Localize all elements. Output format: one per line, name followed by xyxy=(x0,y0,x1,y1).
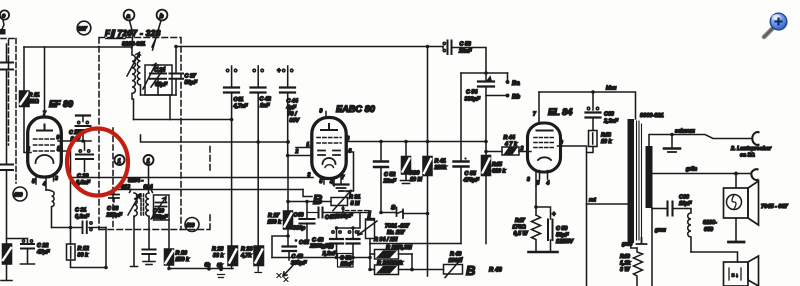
box around C24 xyxy=(145,65,172,95)
resistor R23 xyxy=(228,246,238,269)
svg-text:R 27: R 27 xyxy=(268,213,280,219)
svg-text:C63: C63 xyxy=(604,112,614,118)
wire coil1 bottom down xyxy=(131,217,138,267)
svg-text:× ↓: × ↓ xyxy=(732,273,739,279)
dashed box antenna/IF unit xyxy=(99,38,181,230)
svg-text:33 k: 33 k xyxy=(213,253,224,259)
svg-text:7045 - 007: 7045 - 007 xyxy=(761,204,789,210)
wire box bottom to coil xyxy=(141,94,177,96)
jack 2nd speaker top xyxy=(752,132,758,145)
svg-text:2,2nF: 2,2nF xyxy=(322,251,338,257)
svg-text:7: 7 xyxy=(533,112,536,118)
wire cathode line long xyxy=(71,177,314,179)
wire pin8 detector line xyxy=(346,141,486,143)
wire rot to transformer xyxy=(587,203,629,205)
svg-text:12/15V: 12/15V xyxy=(556,239,573,245)
wire AGC to B xyxy=(303,190,312,197)
svg-text:107: 107 xyxy=(78,27,88,33)
svg-text:R49: R49 xyxy=(620,254,630,260)
svg-text:96 k: 96 k xyxy=(78,253,89,259)
svg-text:FⅡ 7207 - 328: FⅡ 7207 - 328 xyxy=(105,29,161,38)
svg-text:C 24: C 24 xyxy=(154,68,165,74)
wire pin1 stub xyxy=(296,147,312,149)
box around C30 xyxy=(154,195,170,220)
svg-text:C 53: C 53 xyxy=(460,42,471,48)
wire dashed top-left corner xyxy=(1,39,16,146)
svg-text:R 34 / 2M: R 34 / 2M xyxy=(374,237,398,243)
svg-text:Bb: Bb xyxy=(512,95,520,101)
trimmer arrow a xyxy=(127,53,140,77)
wire to bottom speaker xyxy=(691,252,738,262)
svg-text:C 31: C 31 xyxy=(75,208,86,214)
svg-text:4,7nF: 4,7nF xyxy=(233,104,249,110)
magnifier zoom icon xyxy=(764,13,788,37)
resistor R27 xyxy=(272,156,293,258)
svg-text:5: 5 xyxy=(537,181,540,187)
wire gruen tap xyxy=(653,173,752,175)
svg-text:1nF: 1nF xyxy=(260,103,270,109)
resistor R44 xyxy=(484,147,527,155)
capacitor C45 xyxy=(295,239,310,246)
wire AGC line long xyxy=(113,189,303,191)
svg-text:blau: blau xyxy=(606,86,616,92)
svg-text:R 36/220k: R 36/220k xyxy=(377,261,404,267)
capacitor C42 xyxy=(251,66,266,246)
speaker bottom 2nd xyxy=(724,256,759,286)
svg-text:6,2nF: 6,2nF xyxy=(75,214,90,220)
capacitor IF bypass xyxy=(143,250,156,265)
svg-text:C 54: C 54 xyxy=(466,90,477,96)
capacitor C31 xyxy=(83,222,93,234)
svg-text:▴: ▴ xyxy=(487,76,491,82)
svg-text:7: 7 xyxy=(342,175,345,181)
annotation red circle xyxy=(67,129,128,196)
svg-text:EF 89: EF 89 xyxy=(49,99,73,109)
resistor R36 xyxy=(368,265,412,275)
svg-text:9060-021: 9060-021 xyxy=(640,113,664,119)
svg-text:47pF: 47pF xyxy=(36,250,50,256)
svg-text:150 k: 150 k xyxy=(176,257,190,263)
svg-text:220k: 220k xyxy=(434,165,448,171)
svg-text:4 7 k: 4 7 k xyxy=(504,142,518,148)
svg-text:ca 3Ω: ca 3Ω xyxy=(740,153,755,159)
svg-text:10μF: 10μF xyxy=(679,201,692,207)
terminal Ba xyxy=(507,73,509,80)
capacitor C22 xyxy=(7,239,35,265)
node 107 badge xyxy=(77,21,91,35)
svg-text:22nF: 22nF xyxy=(383,179,397,185)
svg-text:4: 4 xyxy=(546,181,550,187)
coil IF core dashes xyxy=(141,194,144,216)
capacitor C52 xyxy=(374,140,388,213)
wire dashed inner vertical xyxy=(112,128,114,229)
capacitor left edge upper xyxy=(0,44,13,163)
svg-text:10Ω: 10Ω xyxy=(29,99,40,105)
capacitor C24 trimmer xyxy=(150,65,166,95)
svg-text:560pF: 560pF xyxy=(153,215,169,221)
svg-text:0,5 W: 0,5 W xyxy=(514,231,529,237)
wire ground row right of R16 xyxy=(169,268,233,270)
wire dashed box bottom xyxy=(99,146,210,230)
svg-text:C 33: C 33 xyxy=(107,206,118,212)
svg-text:R47: R47 xyxy=(515,218,526,224)
capacitor C29 xyxy=(76,141,93,172)
resistor R11 xyxy=(20,47,30,153)
capacitor left edge mid xyxy=(0,165,13,245)
wire R35 R36 join xyxy=(411,254,413,270)
svg-text:C45: C45 xyxy=(299,240,310,246)
svg-text:059: 059 xyxy=(704,227,713,233)
svg-text:B: B xyxy=(466,263,475,278)
wire grid EF89 pin9 xyxy=(61,140,91,142)
svg-text:schwarz: schwarz xyxy=(675,129,695,135)
ground cathode bars xyxy=(529,251,558,254)
svg-text:4μF: 4μF xyxy=(286,105,297,111)
svg-text:65pF: 65pF xyxy=(155,82,168,88)
wire AF line to EABC80 pin2 xyxy=(288,155,312,157)
svg-text:R 26: R 26 xyxy=(241,247,253,253)
transformer 9060-021 xyxy=(628,113,664,244)
wire detector box top xyxy=(461,72,508,74)
svg-text:rot: rot xyxy=(589,198,596,204)
svg-text:R 12: R 12 xyxy=(78,246,89,252)
resistor R47 zigzag xyxy=(532,215,541,252)
resistor R48 xyxy=(587,131,598,153)
coil antenna secondary xyxy=(137,55,140,95)
circled terminal b xyxy=(153,10,168,50)
resistor R49 zigzag xyxy=(634,248,643,286)
svg-text:R 43: R 43 xyxy=(450,252,461,258)
svg-text:C 42: C 42 xyxy=(260,97,271,103)
resistor R45 xyxy=(482,152,491,244)
svg-text:R 41: R 41 xyxy=(435,159,446,165)
node 1 badge left xyxy=(115,155,125,165)
wire B+ bus top xyxy=(176,46,443,48)
coil IF secondary 9204-014 xyxy=(146,193,149,217)
svg-text:2. Lautsprecher: 2. Lautsprecher xyxy=(730,146,772,152)
resistor left edge bottom xyxy=(1,244,12,281)
svg-text:4,7k: 4,7k xyxy=(240,253,252,259)
svg-text:C 29: C 29 xyxy=(77,174,88,180)
capacitor C46 xyxy=(300,202,315,241)
svg-text:3: 3 xyxy=(527,177,530,183)
svg-text:Nr. 187: Nr. 187 xyxy=(387,230,406,236)
capacitor C43 with switch xyxy=(277,247,298,282)
wire AVC line y142 xyxy=(141,135,289,142)
wire C54 down to pin8 line xyxy=(485,96,487,153)
svg-text:+: + xyxy=(277,69,281,75)
svg-text:R 31: R 31 xyxy=(349,195,360,201)
svg-text:b: b xyxy=(160,13,164,20)
capacitor C51 xyxy=(338,254,354,268)
switch S xyxy=(379,205,429,219)
wire audio ground row xyxy=(272,257,370,259)
svg-text:Ba: Ba xyxy=(512,81,520,87)
svg-text:R 35/3,3M: R 35/3,3M xyxy=(386,245,412,251)
svg-text:1: 1 xyxy=(57,146,60,152)
svg-text:C66: C66 xyxy=(679,195,690,201)
ground speaker xyxy=(729,241,745,244)
svg-text:330pF: 330pF xyxy=(465,97,481,103)
capacitor C63 xyxy=(586,92,601,131)
svg-text:10 M: 10 M xyxy=(410,177,422,183)
svg-text:EABC 80: EABC 80 xyxy=(336,104,376,114)
node 460 badge left xyxy=(13,187,27,201)
svg-text:C 49: C 49 xyxy=(322,245,333,251)
svg-text:R48: R48 xyxy=(601,133,611,139)
svg-text:3: 3 xyxy=(308,173,311,179)
svg-text:70 /: 70 / xyxy=(288,112,297,118)
wire box bottom down to screen bus xyxy=(169,95,171,120)
capacitor C44 electrolytic xyxy=(277,66,295,156)
wire pin6 loop xyxy=(339,152,354,191)
capacitor C55 xyxy=(454,73,469,244)
svg-text:330p: 330p xyxy=(293,226,306,232)
wire to R43 xyxy=(412,269,444,271)
svg-text:9: 9 xyxy=(57,135,60,141)
svg-text:460: 460 xyxy=(13,192,23,198)
coil 9238-059 xyxy=(687,209,691,253)
coil IF primary 9204-013 xyxy=(134,193,137,217)
svg-text:9: 9 xyxy=(320,109,323,115)
wire screen bus y120 xyxy=(134,119,232,121)
capacitor C41 xyxy=(224,66,239,246)
node 1 badge right xyxy=(144,155,154,193)
circled terminal a xyxy=(124,10,135,48)
svg-text:C41: C41 xyxy=(234,97,244,103)
svg-text:C 44: C 44 xyxy=(287,99,298,105)
ground secondary xyxy=(664,133,680,152)
svg-text:100Ω: 100Ω xyxy=(449,258,463,264)
svg-text:EL 84: EL 84 xyxy=(548,107,572,117)
svg-text:grün: grün xyxy=(685,167,697,173)
node 460 badge right xyxy=(185,218,199,232)
svg-text:470pF: 470pF xyxy=(463,178,480,184)
svg-text:C 55: C 55 xyxy=(465,171,477,177)
svg-text:5: 5 xyxy=(320,179,323,185)
svg-text:C 59: C 59 xyxy=(556,226,567,232)
svg-text:50μF: 50μF xyxy=(556,233,569,239)
speaker 7045-007 xyxy=(724,172,759,241)
resistor R39 xyxy=(401,140,412,184)
resistor R26 xyxy=(254,246,264,273)
svg-text:2,2nF: 2,2nF xyxy=(603,119,619,125)
wire cathode row xyxy=(52,227,107,229)
capacitor C48 xyxy=(330,228,343,258)
resistor R16 xyxy=(165,249,174,269)
svg-text:B: B xyxy=(313,192,322,207)
svg-text:150 k: 150 k xyxy=(268,220,282,226)
wire schwarz secondary top xyxy=(649,135,752,147)
wire pin3 cathode xyxy=(535,186,537,215)
wire L pot to switch box bottom xyxy=(370,243,461,245)
wire screen pin9 xyxy=(562,146,587,286)
svg-text:5: 5 xyxy=(32,179,35,185)
wire C30 to R16 xyxy=(168,220,170,249)
wire anode B+ blau xyxy=(539,92,636,119)
wire R27 top to R31 xyxy=(288,201,331,203)
capacitor C33 xyxy=(109,190,119,202)
wire grau down xyxy=(651,208,653,286)
capacitor C53 xyxy=(443,41,486,74)
svg-text:10 k: 10 k xyxy=(601,139,612,145)
capacitor C66 xyxy=(652,202,687,216)
svg-text:620 k: 620 k xyxy=(492,169,506,175)
capacitor C49 xyxy=(347,228,360,258)
svg-text:22nF: 22nF xyxy=(458,49,472,55)
resistor R12 xyxy=(67,228,107,268)
svg-text:R 11: R 11 xyxy=(29,93,40,99)
svg-text:S: S xyxy=(391,205,396,212)
svg-text:R 16: R 16 xyxy=(176,251,188,257)
svg-text:9: 9 xyxy=(560,140,563,146)
svg-text:210pF: 210pF xyxy=(106,213,123,219)
svg-text:R 23: R 23 xyxy=(212,247,223,253)
capacitor C28 xyxy=(76,116,91,142)
svg-text:2: 2 xyxy=(26,147,30,153)
svg-text:7801 -187: 7801 -187 xyxy=(385,224,410,230)
tube EF89 xyxy=(28,47,62,190)
svg-text:56pF: 56pF xyxy=(185,80,198,86)
potentiometer R31 xyxy=(331,191,351,213)
node B+ top xyxy=(174,45,178,49)
svg-text:6k: 6k xyxy=(217,263,223,269)
svg-text:C 52: C 52 xyxy=(384,172,395,178)
tube EL84 xyxy=(528,92,563,186)
wire linkage dashed xyxy=(345,210,369,212)
svg-text:2: 2 xyxy=(295,149,299,155)
terminal Bb xyxy=(506,94,510,98)
svg-text:a: a xyxy=(127,13,131,20)
svg-text:1,2k: 1,2k xyxy=(620,261,631,267)
svg-text:R45: R45 xyxy=(492,162,503,168)
potentiometer L tone xyxy=(358,213,377,244)
wire top-left horizontal xyxy=(24,46,132,48)
svg-text:+: + xyxy=(552,212,556,218)
svg-text:R 44: R 44 xyxy=(504,135,515,141)
resistor R35 xyxy=(370,250,412,260)
capacitor C54 xyxy=(478,73,506,96)
svg-text:C46: C46 xyxy=(294,213,305,219)
svg-text:170Ω: 170Ω xyxy=(513,225,527,231)
capacitor C47 xyxy=(307,208,370,218)
capacitor C30 xyxy=(156,203,167,207)
ground EABC80 pin7 xyxy=(334,174,349,191)
wire dashed left vertical xyxy=(15,39,17,184)
potentiometer R43 xyxy=(444,258,463,278)
svg-text:4: 4 xyxy=(42,182,46,188)
svg-text:80V: 80V xyxy=(290,118,300,124)
wire pin1 down xyxy=(61,151,71,228)
svg-text:3: 3 xyxy=(55,176,58,182)
svg-text:9204 -: 9204 - xyxy=(128,178,143,184)
svg-text:R39: R39 xyxy=(410,171,420,177)
svg-text:460: 460 xyxy=(185,223,195,229)
trimmer arrow IF xyxy=(128,194,140,215)
svg-text:9206-011: 9206-011 xyxy=(122,42,145,48)
svg-text:C 37: C 37 xyxy=(185,74,197,80)
svg-text:2: 2 xyxy=(520,146,524,152)
svg-text:grau: grau xyxy=(654,228,666,234)
coil grid-stopper below EF89 pin4 xyxy=(46,190,54,228)
svg-text:3 W: 3 W xyxy=(620,267,630,273)
jack 2nd speaker bottom xyxy=(751,169,757,180)
node c terminal top-left xyxy=(0,10,9,34)
resistor R41 xyxy=(423,45,432,276)
svg-text:C 22: C 22 xyxy=(37,243,48,249)
coil antenna primary xyxy=(132,47,135,120)
svg-text:15nF: 15nF xyxy=(341,262,354,268)
wire cathode bend down xyxy=(105,228,107,268)
svg-text:6h: 6h xyxy=(205,263,211,269)
svg-text:9238-: 9238- xyxy=(703,220,717,226)
wire coil2 down to cap xyxy=(148,217,150,249)
svg-text:5 M: 5 M xyxy=(351,201,360,207)
svg-text:390pF: 390pF xyxy=(291,261,307,267)
capacitor C59 electrolytic xyxy=(536,207,556,252)
tube EABC80 xyxy=(312,112,346,187)
svg-text:R 46: R 46 xyxy=(489,268,502,274)
svg-text:7: 7 xyxy=(43,111,46,117)
trimmer arrow b xyxy=(143,64,156,90)
wire audio cap top row xyxy=(337,213,361,229)
capacitor C37 xyxy=(170,47,184,96)
